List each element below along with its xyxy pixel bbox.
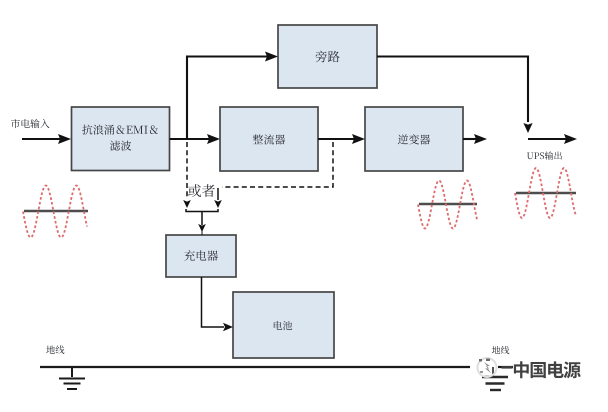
label: 或者 or — [188, 184, 215, 197]
label: B2 text 整流器 rectifier — [253, 134, 285, 144]
ground symbol right — [482, 367, 508, 390]
label: B4 text 旁路 bypass — [316, 51, 340, 63]
wire: joining bracket into charger with arrowhead — [186, 209, 218, 235]
wire: branch up from node at x=187 to bypass box B4 — [187, 52, 278, 140]
block B4 bypass box — [278, 25, 377, 88]
block B3 inverter box — [365, 107, 463, 171]
wire: charger down then right into battery with arrowhead — [202, 277, 234, 331]
watermark logo circle — [478, 358, 497, 377]
label: 市电输入 mains input — [11, 119, 50, 128]
wire: B1 output to B2 with arrowhead — [170, 134, 221, 144]
waveform: UPS output sine (right) with axis — [515, 168, 576, 218]
label: UPS输出 output — [527, 151, 562, 159]
label: 地线 ground (right) — [492, 346, 509, 354]
label: B1 text line1 抗浪涌&EMI& — [82, 125, 158, 135]
block B5 charger box — [166, 235, 236, 277]
watermark text 中国电源 — [514, 361, 581, 378]
label: B6 text 电池 battery — [274, 321, 292, 330]
waveform: input AC sine (left) with axis — [23, 186, 88, 238]
wire: dashed option line from node x=187 down (or-path A) — [183, 142, 191, 208]
ground symbol left — [59, 367, 85, 389]
wire: bypass output right then down to output node — [377, 57, 533, 134]
watermark dash — [502, 366, 513, 369]
wire: dashed option line from rectifier output down and left (or-path B) — [214, 142, 333, 208]
wire: mains input arrow into B1 — [22, 134, 71, 144]
waveform: inverter output sine (middle) with axis — [418, 181, 477, 229]
block B6 battery box — [233, 292, 334, 358]
label: 地线 ground (left) — [46, 345, 64, 354]
wire: UPS output arrow — [528, 134, 577, 144]
block B2 rectifier box — [220, 107, 318, 171]
label: B5 text 充电器 charger — [184, 250, 218, 261]
block B1 surge/EMI filter box — [72, 107, 170, 171]
label: B1 text line2 滤波 — [110, 141, 131, 151]
wire: ground bus line — [40, 366, 513, 368]
label: B3 text 逆变器 inverter — [398, 134, 430, 144]
wire: B2 output to B3 with arrowhead — [318, 134, 365, 144]
wire: B3 inverter output arrow — [463, 134, 487, 144]
